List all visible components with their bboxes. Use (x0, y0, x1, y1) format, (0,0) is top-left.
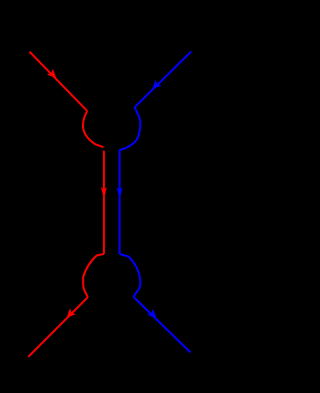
blue trajectory: vertical segment (119, 150, 121, 254)
arrowhead: blue incoming (152, 80, 161, 89)
arrowhead: red incoming (47, 69, 56, 78)
red trajectory: incoming diagonal (top-left) (30, 52, 88, 111)
arrowhead: red outgoing (67, 308, 76, 317)
red trajectory: vertical segment (103, 151, 105, 254)
arrowhead: blue vertical (117, 187, 123, 200)
arrowhead: red vertical (101, 187, 107, 200)
blue trajectory: incoming diagonal (top-right) (135, 52, 192, 108)
blue trajectory: top loop arc (119, 107, 140, 150)
blue trajectory: outgoing diagonal (bottom-right) (134, 297, 191, 352)
red trajectory: bottom loop arc (83, 254, 104, 297)
arrowhead: blue outgoing (147, 309, 156, 318)
red trajectory: top loop arc (83, 111, 104, 147)
blue trajectory: bottom loop arc (120, 254, 141, 297)
red trajectory: outgoing diagonal (bottom-left) (28, 297, 87, 357)
